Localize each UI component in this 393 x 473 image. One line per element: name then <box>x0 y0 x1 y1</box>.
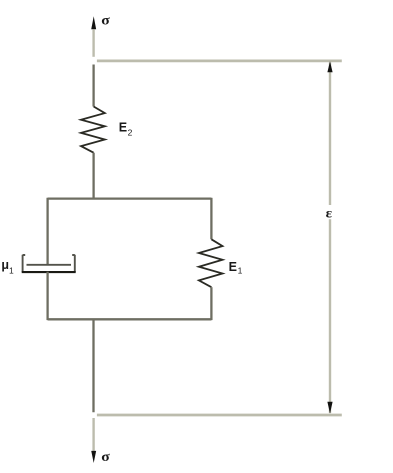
svg-text:σ: σ <box>101 13 110 28</box>
bottom stress arrow line <box>92 418 94 451</box>
strain dimension line upper part <box>329 63 331 206</box>
wire: rod from box bottom down <box>92 319 94 412</box>
wire: box right upper branch <box>210 198 212 240</box>
bottom extension line <box>97 414 342 417</box>
wire: rod from spring E2 to box top <box>92 153 94 199</box>
svg-text:2: 2 <box>128 128 133 138</box>
svg-text:μ: μ <box>1 258 9 272</box>
top extension line <box>97 60 342 63</box>
top stress arrow line <box>92 29 94 57</box>
strain dimension arrowhead top <box>327 61 332 72</box>
top stress arrowhead <box>91 16 96 29</box>
wire: box left lower branch (below cup) <box>46 272 48 320</box>
spring E1 <box>199 239 223 287</box>
svg-text:E: E <box>229 260 237 274</box>
svg-text:E: E <box>119 121 127 135</box>
dashpot cup right wall <box>72 255 75 272</box>
dashpot cup bottom <box>22 271 76 273</box>
svg-text:1: 1 <box>238 266 243 276</box>
dashpot cup left wall <box>23 255 26 272</box>
wire: box right lower branch <box>210 287 212 320</box>
svg-text:ε: ε <box>326 206 333 221</box>
wire: box top <box>48 197 212 199</box>
wire: rod from top junction to spring E2 <box>92 65 94 107</box>
svg-text:1: 1 <box>9 265 14 275</box>
strain dimension line lower part <box>329 219 331 413</box>
svg-text:σ: σ <box>101 450 110 465</box>
bottom stress arrowhead <box>91 451 96 463</box>
wire: box left upper branch (dashpot rod) <box>46 198 48 264</box>
dashpot piston plate <box>27 264 72 266</box>
wire: box bottom <box>48 318 212 320</box>
spring E2 <box>81 107 105 153</box>
strain dimension arrowhead bottom <box>327 402 332 414</box>
